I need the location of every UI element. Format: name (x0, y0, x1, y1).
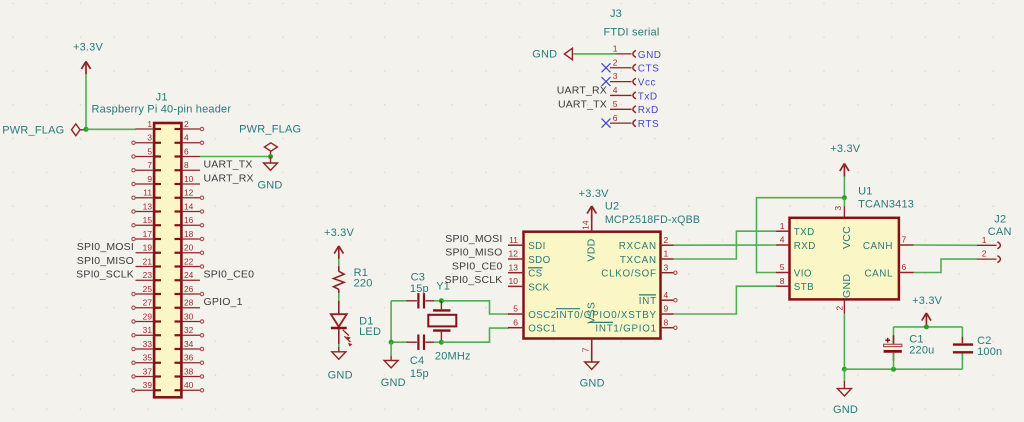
svg-text:11: 11 (143, 188, 152, 198)
J1 pin 12 (right) (175, 188, 204, 200)
svg-text:C4: C4 (410, 355, 424, 367)
svg-text:+3.3V: +3.3V (912, 295, 943, 307)
svg-text:OSC1: OSC1 (528, 324, 556, 335)
svg-text:32: 32 (184, 325, 194, 335)
svg-text:SPI0_MOSI: SPI0_MOSI (77, 241, 134, 253)
LED D1 (331, 301, 381, 347)
svg-text:GPIO_1: GPIO_1 (204, 296, 243, 308)
svg-text:SDI: SDI (528, 241, 546, 252)
J1 pin 11 (left) (132, 188, 161, 200)
svg-text:Vcc: Vcc (638, 78, 656, 89)
svg-text:SPI0_CE0: SPI0_CE0 (452, 260, 503, 272)
J1 pin 23 (left) (136, 270, 162, 280)
svg-text:+3.3V: +3.3V (830, 143, 861, 155)
U2 pin 5 OSC2 (left) (508, 304, 556, 321)
wire GND to J3 pin 1 (573, 53, 616, 55)
svg-text:Raspberry Pi 40-pin header: Raspberry Pi 40-pin header (92, 104, 232, 116)
wire U2 RXCAN to U1 RXD (674, 244, 777, 246)
svg-text:CAN: CAN (988, 226, 1012, 238)
U2 pin 1 TXCAN (right) (620, 249, 674, 266)
wire J1 pin 6 to PWR_FLAG/GND node (200, 156, 271, 158)
svg-text:UART_TX: UART_TX (558, 98, 607, 110)
J1 pin 38 (right) (175, 366, 204, 378)
svg-text:GND: GND (257, 180, 282, 192)
ground GND (below right PWR_FLAG) (257, 157, 282, 192)
U2 pin 7 VSS (bottom) (581, 302, 598, 362)
svg-text:12: 12 (509, 249, 519, 259)
J1 pin 35 (left) (132, 353, 161, 365)
wire U1 CANL to J2 pin 2 (jog) (914, 259, 978, 272)
U2 pin 12 SDO (left) (508, 249, 551, 266)
wire ground rail (U1 GND to C2) (844, 368, 962, 370)
J1 pin 25 (left) (132, 284, 161, 296)
svg-text:9: 9 (664, 304, 669, 314)
U2 pin 2 RXCAN (right) (619, 235, 674, 252)
ground GND power symbol at J3 pin 1 (532, 48, 572, 60)
svg-text:3: 3 (833, 206, 843, 211)
junction U1 GND rail (842, 367, 847, 372)
J1 pin 15 (left) (132, 215, 161, 227)
svg-text:GND: GND (580, 377, 605, 389)
svg-text:7: 7 (902, 235, 907, 245)
svg-text:15: 15 (143, 215, 153, 225)
svg-text:1: 1 (780, 221, 785, 231)
wire U1 CANH to J2 pin 1 (914, 244, 978, 246)
junction C4 left node (389, 340, 394, 345)
svg-text:9: 9 (147, 174, 152, 184)
svg-text:J2: J2 (994, 214, 1006, 226)
J1 pin 32 (right) (175, 325, 204, 337)
U2 pin 9 INT0/GPIO0/XSTBY (right) (556, 304, 673, 321)
J1 pin 10 (right) (175, 174, 201, 184)
J1 pin 34 (right) (175, 339, 204, 351)
junction crystal top node (439, 298, 444, 303)
svg-text:100n: 100n (977, 346, 1002, 358)
svg-text:TxD: TxD (638, 91, 658, 102)
J1 pin 3 (left) (132, 133, 161, 145)
svg-text:SPI0_SCLK: SPI0_SCLK (445, 274, 503, 286)
svg-text:+3.3V: +3.3V (324, 227, 355, 239)
svg-text:J3: J3 (610, 8, 622, 20)
svg-text:36: 36 (184, 353, 194, 363)
svg-text:1: 1 (982, 235, 987, 245)
svg-text:34: 34 (184, 339, 194, 349)
U2 pin 8 INT1/GPIO1 (right) (595, 317, 677, 334)
svg-text:220u: 220u (909, 345, 934, 357)
J3 pin 4 TxD (610, 85, 658, 102)
svg-text:11: 11 (509, 235, 518, 245)
svg-text:2: 2 (982, 249, 987, 259)
wire C4 net bottom left segment (391, 341, 407, 343)
svg-text:16: 16 (184, 215, 194, 225)
svg-text:4: 4 (184, 133, 189, 143)
svg-text:GND: GND (833, 404, 858, 416)
svg-text:INT0/GPIO0/XSTBY: INT0/GPIO0/XSTBY (556, 310, 657, 321)
svg-text:13: 13 (509, 262, 519, 272)
J1 pin 16 (right) (175, 215, 204, 227)
svg-text:STB: STB (794, 282, 814, 293)
J1 pin 21 (left) (136, 256, 162, 266)
wire +3.3V top rail (C1 to C2) (894, 326, 963, 328)
svg-text:3: 3 (664, 262, 669, 272)
J1 pin 6 (right) (175, 146, 201, 156)
svg-text:8: 8 (780, 276, 785, 286)
svg-text:VIO: VIO (794, 268, 812, 279)
svg-text:2: 2 (613, 57, 618, 67)
svg-text:10: 10 (509, 276, 519, 286)
J1 pin 13 (left) (132, 201, 161, 213)
J1 pin 30 (right) (175, 311, 204, 323)
svg-text:8: 8 (664, 317, 669, 327)
svg-text:27: 27 (143, 298, 153, 308)
wire junction to J1 pin 1 (86, 128, 136, 130)
svg-text:UART_RX: UART_RX (557, 84, 607, 96)
svg-text:4: 4 (664, 290, 669, 300)
wire crystal bottom node to U2 OSC1 (with jog) (441, 328, 509, 342)
wire U1 GND pin down to ground rail (843, 314, 845, 370)
U1 pin 5 VIO (left) (776, 262, 812, 279)
svg-text:LED: LED (359, 326, 381, 338)
J1 pin 19 (left) (136, 243, 162, 253)
svg-text:VSS: VSS (586, 302, 598, 324)
svg-text:SPI0_MISO: SPI0_MISO (77, 255, 134, 267)
svg-text:3: 3 (613, 71, 618, 81)
svg-text:6: 6 (513, 317, 518, 327)
wire U2 INT0/GPIO0/XSTBY to U1 STB (jog) (674, 286, 777, 314)
J1 pin 7 (left) (132, 160, 161, 172)
wire oscillator left vertical (390, 301, 392, 342)
J1 pin 9 (left) (132, 174, 161, 186)
svg-text:5: 5 (147, 146, 152, 156)
svg-text:15p: 15p (410, 368, 429, 380)
svg-text:RXCAN: RXCAN (619, 241, 657, 252)
svg-text:18: 18 (184, 229, 194, 239)
svg-text:CTS: CTS (638, 64, 660, 75)
J3 pin 3 Vcc (610, 71, 656, 88)
svg-text:UART_TX: UART_TX (204, 159, 253, 171)
U1 pin 4 RXD (left) (776, 235, 816, 252)
ground GND (below U1) (833, 381, 858, 416)
wire crystal top node to U2 OSC2 (with jog) (441, 301, 509, 314)
svg-text:SCK: SCK (528, 282, 549, 293)
svg-text:SDO: SDO (528, 255, 550, 266)
wire GND stub below junction (843, 369, 845, 381)
U2 pin 6 OSC1 (left) (508, 317, 556, 334)
svg-text:40: 40 (184, 380, 194, 390)
J1 pin 37 (left) (132, 366, 161, 378)
J1 pin 14 (right) (175, 201, 204, 213)
J3 pin 6 RTS (610, 113, 659, 130)
U1 pin 8 STB (left) (776, 276, 814, 293)
junction at +3.3V / PWR_FLAG / J1 pin1 (84, 127, 89, 132)
J1 pin 26 (right) (175, 284, 204, 296)
svg-text:SPI0_MISO: SPI0_MISO (445, 247, 502, 259)
U2 pin 11 SDI (left) (508, 235, 546, 252)
J1 pin 2 (right) (175, 119, 204, 131)
J1 pin 1 (left) (136, 119, 162, 129)
J1 pin 31 (left) (132, 325, 161, 337)
connector J2 CAN (988, 214, 1012, 239)
svg-text:OSC2: OSC2 (528, 310, 556, 321)
J1 pin 8 (right) (175, 160, 201, 170)
U2 pin 13 CS (left) (508, 262, 543, 279)
U2 pin 10 SCK (left) (508, 276, 550, 293)
wire osc net down to GND (390, 342, 392, 356)
svg-text:U1: U1 (858, 186, 872, 198)
svg-text:5: 5 (613, 99, 618, 109)
svg-text:SPI0_MOSI: SPI0_MOSI (445, 233, 502, 245)
U1 pin 7 CANH (right) (863, 235, 914, 253)
svg-text:SPI0_SCLK: SPI0_SCLK (76, 269, 134, 281)
IC U1 TCAN3413 body (790, 186, 915, 300)
power flag PWR_FLAG (right) (239, 124, 301, 154)
svg-text:MCP2518FD-xQBB: MCP2518FD-xQBB (605, 214, 700, 226)
capacitor C4 (407, 335, 436, 381)
wire +3.3V down to VCC junction (843, 176, 845, 197)
J1 pin 39 (left) (132, 380, 161, 392)
power flag PWR_FLAG (left) (2, 124, 84, 136)
svg-text:33: 33 (143, 339, 153, 349)
svg-text:2: 2 (835, 306, 845, 311)
svg-text:UART_RX: UART_RX (204, 172, 254, 184)
no-connect X at J3 pin 2 (602, 63, 611, 72)
J2 pin 2 (977, 249, 1000, 263)
svg-text:+3.3V: +3.3V (579, 188, 610, 200)
J1 pin 20 (right) (175, 243, 204, 255)
J1 pin 29 (left) (132, 311, 161, 323)
svg-text:6: 6 (184, 146, 189, 156)
IC U2 MCP2518FD-xQBB body (524, 201, 701, 339)
J1 pin 5 (left) (132, 146, 161, 158)
svg-text:PWR_FLAG: PWR_FLAG (2, 124, 64, 136)
svg-text:20: 20 (184, 243, 194, 253)
svg-text:21: 21 (143, 256, 153, 266)
svg-text:CANH: CANH (863, 241, 893, 252)
J1 pin 17 (left) (132, 229, 161, 241)
J1 pin 28 (right) (175, 298, 201, 308)
svg-text:30: 30 (184, 311, 194, 321)
svg-text:C3: C3 (411, 272, 425, 284)
U1 pin 1 TXD (left) (776, 221, 815, 238)
J1 pin 22 (right) (175, 256, 204, 268)
svg-text:22: 22 (184, 256, 194, 266)
svg-text:12: 12 (184, 188, 194, 198)
svg-text:39: 39 (143, 380, 153, 390)
J1 pin 24 (right) (175, 270, 201, 280)
svg-text:GND: GND (638, 50, 662, 61)
wire D1 to GND (338, 344, 340, 347)
ground GND (below D1) (328, 347, 353, 381)
svg-text:5: 5 (780, 262, 785, 272)
svg-text:SPI0_CE0: SPI0_CE0 (204, 269, 255, 281)
svg-text:2: 2 (664, 235, 669, 245)
J1 pin 40 (right) (175, 380, 204, 392)
svg-text:26: 26 (184, 284, 194, 294)
capacitor C2 (953, 327, 1002, 360)
svg-text:13: 13 (143, 201, 153, 211)
svg-text:GND: GND (328, 369, 353, 381)
junction crystal bottom node (439, 340, 444, 345)
svg-text:23: 23 (143, 270, 153, 280)
svg-text:RxD: RxD (638, 105, 659, 116)
svg-text:TXD: TXD (794, 227, 815, 238)
wire U2 TXCAN to U1 TXD (jog) (674, 231, 777, 259)
U2 pin 3 CLKO/SOF (right) (601, 262, 677, 279)
J1 pin 4 (right) (175, 133, 204, 145)
svg-text:U2: U2 (605, 201, 619, 213)
junction U1 VCC / +3.3V rail (842, 195, 847, 200)
wire C3 to crystal top node (434, 300, 441, 302)
svg-text:1: 1 (147, 119, 152, 129)
svg-text:38: 38 (184, 366, 194, 376)
svg-text:7: 7 (581, 347, 591, 352)
U2 pin 14 VDD (top) (581, 217, 598, 262)
svg-text:INT: INT (639, 296, 657, 307)
power +3.3V (above C1/C2 rail) (912, 295, 943, 326)
J1 pin 33 (left) (132, 339, 161, 351)
svg-text:14: 14 (184, 201, 194, 211)
capacitor C1 (polarized) (884, 334, 935, 361)
resistor R1 (334, 266, 373, 294)
svg-text:1: 1 (664, 249, 669, 259)
svg-text:RTS: RTS (638, 119, 659, 130)
U1 pin 3 VCC (top) (833, 206, 853, 249)
svg-text:CLKO/SOF: CLKO/SOF (601, 269, 657, 280)
J3 pin 1 GND (610, 44, 662, 61)
no-connect X at J3 pin 3 (602, 77, 611, 86)
J1 pin 36 (right) (175, 353, 204, 365)
overline for U2 INT pin name (639, 294, 656, 296)
J3 pin 5 RxD (610, 99, 659, 116)
svg-text:10: 10 (184, 174, 194, 184)
wire C2 bottom stub (961, 354, 963, 370)
ground GND (below C4 node) (381, 356, 406, 389)
U1 pin 2 GND (bottom) (835, 274, 854, 314)
wire C3 net top left segment (391, 300, 407, 302)
wire C1 bottom stub (893, 353, 895, 369)
svg-text:1: 1 (613, 44, 618, 54)
svg-text:7: 7 (147, 160, 152, 170)
svg-text:29: 29 (143, 311, 153, 321)
power +3.3V (top left) (73, 42, 104, 75)
crystal Y1 (428, 281, 470, 363)
svg-text:GND: GND (381, 377, 406, 389)
svg-text:35: 35 (143, 353, 153, 363)
svg-text:24: 24 (184, 270, 194, 280)
svg-text:CANL: CANL (864, 269, 893, 280)
svg-text:4: 4 (780, 235, 785, 245)
svg-text:J1: J1 (156, 92, 168, 104)
junction C1 bottom on ground rail (891, 367, 896, 372)
svg-text:+3.3V: +3.3V (73, 42, 104, 54)
svg-text:2: 2 (184, 119, 189, 129)
svg-text:TCAN3413: TCAN3413 (858, 198, 914, 210)
svg-text:15p: 15p (410, 283, 429, 295)
svg-text:TXCAN: TXCAN (620, 255, 657, 266)
U2 pin 4 INT (right) (639, 290, 677, 307)
connector J1 Raspberry Pi 40-pin header body (92, 92, 232, 398)
svg-text:37: 37 (143, 366, 153, 376)
svg-text:GND: GND (532, 49, 557, 61)
svg-text:6: 6 (902, 262, 907, 272)
svg-text:PWR_FLAG: PWR_FLAG (239, 124, 301, 136)
svg-text:INT1/GPIO1: INT1/GPIO1 (595, 324, 656, 335)
power +3.3V (above U1) (830, 143, 861, 177)
svg-text:8: 8 (184, 160, 189, 170)
J1 pin 18 (right) (175, 229, 204, 241)
svg-text:4: 4 (613, 85, 618, 95)
J1 pin 27 (left) (132, 298, 161, 310)
power +3.3V (above R1) (324, 227, 355, 259)
power +3.3V (above U2) (579, 188, 610, 219)
wire junction to U1 VCC pin (843, 198, 845, 207)
wire R1 to D1 (338, 293, 340, 301)
svg-text:17: 17 (143, 229, 153, 239)
connector J3 FTDI serial (604, 8, 660, 39)
U1 pin 6 CANL (right) (864, 262, 913, 280)
svg-text:25: 25 (143, 284, 153, 294)
wire +3.3V down to J1 pin 1 net (85, 74, 87, 129)
svg-text:31: 31 (143, 325, 153, 335)
J2 pin 1 (977, 235, 1000, 249)
overline for U2 INT1 part (589, 321, 613, 323)
wire +3.3V to R1 (338, 259, 340, 265)
wire C1 top stub (893, 327, 895, 344)
svg-text:220: 220 (354, 277, 373, 289)
svg-text:14: 14 (581, 220, 591, 230)
overline for U2 INT0 part (556, 308, 580, 310)
svg-text:GND: GND (841, 274, 853, 298)
capacitor C3 (407, 272, 436, 309)
svg-text:RXD: RXD (794, 241, 816, 252)
svg-text:CS: CS (528, 269, 542, 280)
svg-text:5: 5 (513, 304, 518, 314)
J3 pin 2 CTS (610, 57, 659, 74)
svg-text:3: 3 (147, 133, 152, 143)
ground GND (below U2) (580, 362, 605, 389)
svg-text:FTDI serial: FTDI serial (604, 26, 660, 38)
svg-text:6: 6 (613, 113, 618, 123)
wire C4 to crystal bottom node (434, 341, 441, 343)
svg-text:19: 19 (143, 243, 153, 253)
svg-text:20MHz: 20MHz (435, 351, 471, 363)
svg-text:VCC: VCC (841, 226, 853, 249)
junction at J1 pin 6 node (268, 154, 273, 159)
junction +3.3V on top rail (924, 324, 929, 329)
wire +3.3V rail to U1 VIO (jog) (757, 198, 845, 273)
wire +3.3V stub to rail (925, 326, 927, 327)
svg-text:28: 28 (184, 298, 194, 308)
svg-text:VDD: VDD (586, 238, 598, 261)
no-connect X at J3 pin 6 (602, 119, 611, 128)
